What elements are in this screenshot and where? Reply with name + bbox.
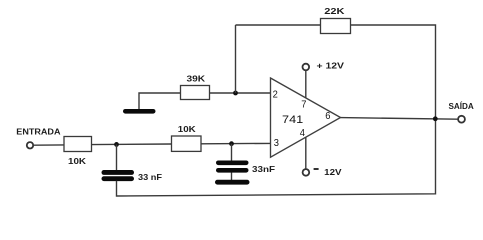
- node pin 2: [233, 91, 238, 96]
- svg-text:4: 4: [300, 128, 306, 139]
- resistor R2 10K: [172, 136, 202, 151]
- svg-text:741: 741: [282, 114, 303, 126]
- wire R2 to pin 3: [201, 142, 271, 144]
- terminal +12V: [303, 64, 310, 71]
- wire output: [341, 118, 459, 120]
- svg-text:33nF: 33nF: [252, 164, 275, 174]
- node A: [114, 142, 119, 147]
- wire node A to C1: [116, 144, 118, 170]
- svg-text:39K: 39K: [187, 74, 206, 84]
- svg-text:6: 6: [325, 111, 331, 122]
- terminal -12V: [303, 169, 310, 176]
- svg-text:+ 12V: + 12V: [317, 61, 345, 71]
- resistor R3 39K: [181, 86, 210, 100]
- terminal ENTRADA: [27, 142, 33, 148]
- svg-text:SAÍDA: SAÍDA: [449, 102, 475, 111]
- svg-text:12V: 12V: [324, 167, 342, 177]
- wire ground to R3: [139, 93, 181, 109]
- wire feedback vertical left: [235, 25, 237, 93]
- capacitor C2 33nF: [216, 161, 249, 173]
- svg-text:10K: 10K: [178, 124, 197, 134]
- capacitor C1 33nF: [102, 170, 135, 181]
- wire top rail right: [351, 25, 436, 119]
- svg-text:2: 2: [273, 89, 279, 100]
- svg-text:22K: 22K: [324, 6, 345, 16]
- node output: [433, 116, 438, 121]
- svg-text:7: 7: [301, 100, 307, 111]
- op-amp U1 741: [271, 78, 341, 157]
- wire R3 to pin 2: [210, 92, 271, 94]
- svg-text:10K: 10K: [68, 156, 87, 166]
- label -12V: [314, 167, 342, 177]
- wire node B to C2: [231, 144, 233, 161]
- wire C2 to ground: [231, 173, 233, 181]
- pin 7 wire: [305, 71, 307, 98]
- wire node A to R2: [92, 143, 172, 146]
- wire top rail left: [236, 24, 321, 26]
- resistor R4 22K: [321, 19, 351, 34]
- wire input: [33, 144, 64, 146]
- terminal SAIDA: [458, 116, 465, 123]
- svg-text:3: 3: [274, 138, 280, 149]
- ground below C2: [215, 180, 250, 185]
- wire C1 to bottom rail to output node: [117, 119, 436, 197]
- ground at 39K: [123, 109, 156, 114]
- pin 4 wire: [305, 137, 307, 169]
- svg-text:ENTRADA: ENTRADA: [16, 127, 61, 137]
- svg-text:33 nF: 33 nF: [138, 172, 162, 182]
- node B: [229, 141, 234, 146]
- resistor R1 10K: [64, 137, 92, 152]
